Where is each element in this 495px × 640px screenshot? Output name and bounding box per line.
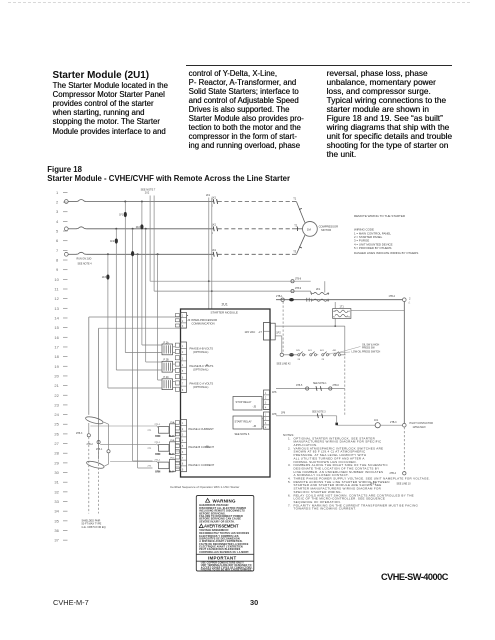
bus drop x=157.6 <box>157 253 161 380</box>
svg-text:7: 7 <box>182 457 184 460</box>
svg-text:115VA MAX: 115VA MAX <box>413 426 426 429</box>
compressor motor 1M <box>303 222 339 237</box>
svg-text:33: 33 <box>54 499 59 504</box>
svg-text:6.: 6. <box>288 493 291 497</box>
current transformer CT2 <box>86 460 105 470</box>
svg-text:(OPTIONAL): (OPTIONAL) <box>193 385 208 389</box>
wire 115VAC to terminal 1TB-2 <box>276 295 411 304</box>
svg-text:SEE NOTE 3: SEE NOTE 3 <box>312 412 326 414</box>
svg-text:-J5: -J5 <box>253 405 257 409</box>
1P2 wire to chain <box>275 325 345 355</box>
svg-text:20: 20 <box>54 373 59 378</box>
svg-text:4: 4 <box>265 407 267 410</box>
start circuit wire <box>276 412 337 419</box>
svg-text:BLU: BLU <box>169 472 174 474</box>
bus drop x=141.9 <box>136 201 161 346</box>
svg-text:1P6: 1P6 <box>272 391 277 394</box>
svg-text:6K1: 6K1 <box>320 350 325 352</box>
svg-text:STOP RELAY: STOP RELAY <box>236 400 252 404</box>
svg-text:2T1: 2T1 <box>148 430 153 432</box>
svg-text:9: 9 <box>56 267 59 272</box>
svg-text:P5B: P5B <box>170 440 175 442</box>
svg-text:2T1: 2T1 <box>148 448 153 450</box>
connector J1 (phase volts) <box>175 342 186 392</box>
svg-text:19: 19 <box>54 364 59 369</box>
svg-text:BRN: BRN <box>155 472 160 474</box>
svg-text:PHASE B CURRENT: PHASE B CURRENT <box>189 445 215 449</box>
svg-text:1M: 1M <box>307 227 312 231</box>
svg-text:22: 22 <box>54 393 59 398</box>
svg-text:16: 16 <box>54 335 59 340</box>
svg-text:1: 1 <box>265 392 267 395</box>
heading: Starter Module (2U1) <box>53 70 150 81</box>
svg-text:△: △ <box>408 301 410 304</box>
svg-text:H2: H2 <box>348 311 350 313</box>
motor lead T3 <box>292 235 305 254</box>
svg-text:2TB-1: 2TB-1 <box>276 295 283 298</box>
current transformer CT1 <box>85 415 104 425</box>
control feed drop A <box>150 196 311 282</box>
svg-text:4K1: 4K1 <box>333 350 338 352</box>
svg-text:5: 5 <box>182 370 184 373</box>
svg-text:27: 27 <box>54 441 59 446</box>
svg-text:1TB-5: 1TB-5 <box>296 385 303 387</box>
svg-text:(OPTIONAL): (OPTIONAL) <box>193 350 208 354</box>
svg-text:PILOT CONTACTOR: PILOT CONTACTOR <box>410 422 434 425</box>
svg-text:PHASE A CURRENT: PHASE A CURRENT <box>189 427 215 431</box>
pilot contactor coil 1K1 <box>337 419 433 429</box>
vertical feeder to pilot contactor <box>403 302 405 424</box>
header rule above columns 2-3 <box>186 65 452 67</box>
svg-text:11: 11 <box>54 287 59 292</box>
svg-text:2T1-1: 2T1-1 <box>155 442 161 444</box>
svg-text:START RELAY: START RELAY <box>235 420 253 424</box>
svg-text:2: 2 <box>182 320 184 323</box>
svg-text:P 2C: P 2C <box>164 376 170 379</box>
svg-text:29: 29 <box>322 359 325 361</box>
svg-text:2U1: 2U1 <box>222 303 228 307</box>
svg-text:1K5: 1K5 <box>296 350 301 352</box>
svg-text:3: 3 <box>265 422 267 425</box>
connector J2 (phase current) <box>175 420 186 472</box>
fuse element 2F1 <box>311 281 329 301</box>
svg-text:▲: ▲ <box>187 314 189 317</box>
feeder pair to module top, 2F1 tap <box>206 194 213 309</box>
svg-text:-J6: -J6 <box>253 424 257 428</box>
svg-text:2F2: 2F2 <box>136 226 141 229</box>
warning label box <box>196 496 254 572</box>
svg-text:18: 18 <box>54 354 59 359</box>
svg-text:Certified Sequence of Operatio: Certified Sequence of Operation With 1-U… <box>170 485 239 489</box>
svg-text:RUN ON 2UD: RUN ON 2UD <box>77 258 92 261</box>
svg-text:6: 6 <box>182 451 184 454</box>
label SEE NOTE 7 <box>141 188 156 194</box>
svg-text:1: 1 <box>182 422 184 425</box>
shielded pair note <box>82 520 107 529</box>
svg-text:32: 32 <box>54 489 59 494</box>
svg-text:2T1: 2T1 <box>148 466 153 468</box>
svg-text:DASHED LINES INDICATE WIRING B: DASHED LINES INDICATE WIRING BY OTHERS <box>354 251 418 255</box>
svg-text:35: 35 <box>54 518 59 523</box>
connector J3 (inter-processor) <box>175 313 217 329</box>
svg-text:COMMUNICATION: COMMUNICATION <box>192 322 215 326</box>
svg-text:X2: X2 <box>348 317 350 319</box>
svg-text:2T1-1: 2T1-1 <box>155 459 161 461</box>
svg-text:3: 3 <box>182 358 184 361</box>
svg-text:T1: T1 <box>293 197 297 201</box>
notes list <box>283 433 430 511</box>
paragraph column 2 <box>189 69 304 150</box>
svg-text:3.: 3. <box>288 463 291 467</box>
svg-text:1.: 1. <box>288 436 291 440</box>
label low oil press switch <box>328 351 381 354</box>
svg-text:2TB-6: 2TB-6 <box>333 385 340 387</box>
svg-text:COMPRESSOR: COMPRESSOR <box>319 225 338 229</box>
svg-text:3: 3 <box>182 434 184 437</box>
P2 input stubs <box>146 345 162 388</box>
paragraph column 3 <box>327 69 452 159</box>
potential transformer P 2A <box>162 341 175 354</box>
svg-text:REMOTE WIRING TO THE STARTER: REMOTE WIRING TO THE STARTER <box>354 214 406 218</box>
svg-text:2U2: 2U2 <box>145 192 150 195</box>
svg-text:17: 17 <box>54 344 59 349</box>
stop relay K1 <box>233 397 264 411</box>
external interlock wire <box>276 383 345 391</box>
svg-text:2: 2 <box>56 200 59 205</box>
svg-text:31: 31 <box>54 480 59 485</box>
control transformer 1T1 <box>333 302 405 326</box>
bus drop x=132.6 <box>131 228 153 461</box>
CT terminal 2TB-2 <box>87 441 101 514</box>
connector J7 (115 VAC) <box>245 323 282 341</box>
svg-text:BRN: BRN <box>155 436 160 438</box>
svg-text:H1: H1 <box>333 311 335 313</box>
svg-text:WARNING: WARNING <box>213 498 236 503</box>
svg-text:7.: 7. <box>288 503 291 507</box>
svg-text:115 VAC: 115 VAC <box>245 330 256 334</box>
svg-text:26: 26 <box>54 431 59 436</box>
motor lead T1 <box>292 197 305 223</box>
svg-text:21: 21 <box>54 383 59 388</box>
terminal 1TB-8 on feed A <box>291 278 302 283</box>
current plug P5C <box>148 458 181 474</box>
svg-text:37: 37 <box>54 538 59 543</box>
terminal 1TB-9 on feed B <box>291 288 302 293</box>
svg-text:5: 5 <box>182 445 184 448</box>
svg-text:-J3 INTER-PROCESSOR: -J3 INTER-PROCESSOR <box>187 318 218 322</box>
chain drop <box>344 357 346 416</box>
svg-text:25: 25 <box>54 422 59 427</box>
svg-text:36: 36 <box>54 528 59 533</box>
svg-text:30: 30 <box>54 470 59 475</box>
current plug P5A <box>148 421 181 438</box>
CT secondary wires to module <box>90 426 156 462</box>
svg-text:1F3: 1F3 <box>102 276 107 279</box>
svg-text:TOWARDS THE INCOMING CURRENT.: TOWARDS THE INCOMING CURRENT. <box>294 507 357 511</box>
svg-text:13: 13 <box>54 306 59 311</box>
CT primary wire A (to J3) <box>89 317 181 415</box>
legend: remote wiring notes <box>354 214 418 255</box>
paragraph column 1 <box>53 81 168 135</box>
svg-text:SEE NOTE 1: SEE NOTE 1 <box>313 383 327 385</box>
faint top page edge dashed line <box>8 2 470 3</box>
svg-text:1: 1 <box>265 413 267 416</box>
power line L1 (schematic line 2) <box>64 195 292 207</box>
svg-text:BLU: BLU <box>169 436 174 438</box>
svg-text:4: 4 <box>56 219 59 224</box>
svg-text:29: 29 <box>54 460 59 465</box>
svg-text:10: 10 <box>54 277 59 282</box>
svg-text:7: 7 <box>182 383 184 386</box>
svg-text:LOW OIL PRESS SWITCH: LOW OIL PRESS SWITCH <box>352 351 381 354</box>
svg-text:28: 28 <box>298 359 301 361</box>
svg-text:6: 6 <box>56 238 59 243</box>
svg-text:IMPORTANT: IMPORTANT <box>208 556 236 561</box>
svg-text:3: 3 <box>265 402 267 405</box>
svg-text:8: 8 <box>182 463 184 466</box>
connector J6 (start relay) <box>264 412 278 429</box>
label run on 2ud <box>77 258 93 266</box>
svg-text:2: 2 <box>409 296 411 300</box>
svg-text:4: 4 <box>182 364 184 367</box>
svg-text:1K1: 1K1 <box>212 195 217 199</box>
svg-text:2.: 2. <box>288 446 291 450</box>
power line L2 (schematic line 5) <box>64 223 292 235</box>
footer <box>381 572 448 582</box>
svg-text:2T1-1: 2T1-1 <box>155 424 161 426</box>
svg-text:12: 12 <box>54 296 59 301</box>
safety chain contacts <box>280 350 345 361</box>
svg-text:2TB-3: 2TB-3 <box>390 421 397 424</box>
svg-text:MOTOR: MOTOR <box>321 228 331 232</box>
svg-text:BRN: BRN <box>155 454 160 456</box>
svg-text:1F1: 1F1 <box>119 214 124 217</box>
svg-text:2TB-4: 2TB-4 <box>390 472 397 475</box>
svg-text:2TB-3: 2TB-3 <box>76 433 83 435</box>
svg-text:15: 15 <box>54 325 59 330</box>
svg-text:1K1: 1K1 <box>212 223 217 227</box>
schematic line-number column 1-37 <box>54 190 67 543</box>
svg-text:2TB-1: 2TB-1 <box>96 449 103 451</box>
svg-text:1K1: 1K1 <box>374 419 379 422</box>
CT terminal 2TB-3 <box>76 423 90 514</box>
svg-text:2F1: 2F1 <box>206 194 211 197</box>
svg-text:1F2: 1F2 <box>110 240 115 243</box>
svg-text:3: 3 <box>182 325 184 328</box>
svg-text:9: 9 <box>182 468 184 471</box>
bus drop x=116.3 <box>110 228 160 370</box>
earth run to 2TB-4 <box>370 427 411 486</box>
svg-text:5K1: 5K1 <box>308 350 313 352</box>
svg-text:SEE NOTE 4: SEE NOTE 4 <box>78 263 93 266</box>
svg-text:1TB-9: 1TB-9 <box>295 288 302 290</box>
svg-text:1P8: 1P8 <box>281 412 286 414</box>
dashed drop to chain <box>282 302 284 353</box>
svg-text:8: 8 <box>182 389 184 392</box>
svg-text:5 = PROVIDED BY OTHERS: 5 = PROVIDED BY OTHERS <box>354 246 392 250</box>
svg-text:1P8: 1P8 <box>272 413 277 416</box>
svg-text:2: 2 <box>265 418 267 421</box>
svg-text:1TB-8: 1TB-8 <box>295 278 302 280</box>
svg-text:-J7: -J7 <box>258 330 262 334</box>
svg-text:6: 6 <box>182 376 184 379</box>
svg-text:X1: X1 <box>333 317 335 319</box>
CT primary wire B (to J3) <box>99 328 181 459</box>
svg-text:1: 1 <box>182 315 184 318</box>
svg-text:2: 2 <box>182 428 184 431</box>
svg-text:(OPTIONAL): (OPTIONAL) <box>193 368 208 372</box>
svg-text:14: 14 <box>54 315 59 320</box>
potential transformer P 2C <box>162 376 175 389</box>
svg-text:7: 7 <box>56 248 59 253</box>
svg-text:5: 5 <box>56 229 59 234</box>
svg-text:P5C: P5C <box>170 458 175 460</box>
svg-text:1K1: 1K1 <box>212 248 217 252</box>
svg-text:2TB-2: 2TB-2 <box>87 444 94 446</box>
bus drop x=107.9 <box>102 253 161 388</box>
svg-text:PHASE C CURRENT: PHASE C CURRENT <box>189 463 215 467</box>
svg-text:24: 24 <box>54 412 59 417</box>
svg-text:4: 4 <box>182 439 184 442</box>
bus drop x=145.7 <box>145 228 161 362</box>
label high press switch <box>339 343 380 352</box>
svg-text:2: 2 <box>265 397 267 400</box>
svg-text:PRESS SW: PRESS SW <box>362 347 375 350</box>
start relay K2 <box>233 416 264 429</box>
svg-text:P 2B: P 2B <box>164 359 170 362</box>
junction blob <box>335 416 338 425</box>
svg-text:BLU: BLU <box>169 454 174 456</box>
svg-text:1T1: 1T1 <box>340 305 345 308</box>
power line L3 (schematic line 8) <box>64 248 292 260</box>
svg-text:T3: T3 <box>293 249 297 253</box>
svg-text:P5A: P5A <box>170 421 175 424</box>
svg-text:4: 4 <box>265 426 267 429</box>
svg-text:1TB-2: 1TB-2 <box>389 295 396 298</box>
svg-text:P 2A: P 2A <box>164 341 170 344</box>
current plug P5B <box>148 440 181 456</box>
potential transformer P 2B <box>162 359 175 372</box>
CT bracket wire <box>96 422 110 466</box>
starter module 2U1 box <box>181 303 271 477</box>
svg-text:3: 3 <box>56 209 59 214</box>
module internal labels <box>189 346 215 467</box>
svg-text:2F1: 2F1 <box>316 288 321 291</box>
connector J5 (stop relay) <box>264 390 278 410</box>
svg-text:23: 23 <box>54 402 59 407</box>
svg-text:1: 1 <box>56 190 59 195</box>
svg-text:1P2: 1P2 <box>276 332 281 335</box>
svg-text:FAILURE TO DO SO MAY CAUSE DAM: FAILURE TO DO SO MAY CAUSE DAMAGE. <box>201 569 253 572</box>
svg-text:28: 28 <box>54 451 59 456</box>
svg-text:34: 34 <box>54 509 59 514</box>
svg-text:CORPORELLES SEVERES OU LA MORT: CORPORELLES SEVERES OU LA MORT. <box>199 551 249 554</box>
svg-text:AVERTISSEMENT: AVERTISSEMENT <box>204 524 239 529</box>
svg-text:SEE LINE 42: SEE LINE 42 <box>277 363 292 366</box>
svg-text:PHASE A-B VOLTS: PHASE A-B VOLTS <box>190 346 214 350</box>
control feed drop B <box>154 196 311 292</box>
svg-text:8: 8 <box>56 258 59 263</box>
bus drop x=125.3 <box>119 201 160 353</box>
svg-text:PHASE C-A VOLTS: PHASE C-A VOLTS <box>190 381 214 385</box>
svg-text:PHASE B-C VOLTS: PHASE B-C VOLTS <box>190 364 214 368</box>
svg-text:SEE NOTE 6: SEE NOTE 6 <box>235 433 250 436</box>
bus drop x=137.6 <box>137 253 153 468</box>
motor lead T2 <box>292 224 302 231</box>
figure caption <box>47 165 82 174</box>
svg-text:1: 1 <box>182 345 184 348</box>
svg-text:G.E. CR57C3 OR EQ.: G.E. CR57C3 OR EQ. <box>82 526 107 529</box>
svg-text:SEE LINE 10: SEE LINE 10 <box>397 483 412 486</box>
svg-text:STARTER MODULE: STARTER MODULE <box>211 311 238 315</box>
svg-text:2: 2 <box>182 351 184 354</box>
svg-text:5.: 5. <box>288 480 291 484</box>
